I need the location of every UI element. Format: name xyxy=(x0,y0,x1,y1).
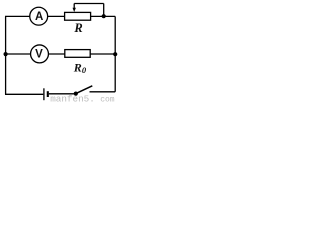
node junction mid-right xyxy=(113,52,117,56)
switch pivot node xyxy=(74,92,78,96)
wire ammeter to rheostat xyxy=(48,15,65,17)
wire R0 to right vertical xyxy=(90,53,115,55)
node junction top xyxy=(102,14,106,18)
svg-text:A: A xyxy=(35,11,43,23)
battery short plate xyxy=(47,91,49,97)
rheostat R body xyxy=(65,12,91,20)
wire battery to switch xyxy=(49,93,76,95)
svg-text:com: com xyxy=(100,95,115,103)
node junction mid-left xyxy=(4,52,8,56)
wire bottom-left horizontal xyxy=(5,93,43,95)
battery long plate xyxy=(43,88,45,100)
ammeter A xyxy=(30,7,48,25)
svg-text:manfen5.: manfen5. xyxy=(50,94,95,104)
wire mid-left horizontal xyxy=(6,53,31,55)
background xyxy=(0,0,119,103)
wire left vertical xyxy=(5,16,7,94)
wire rheostat to right corner xyxy=(91,15,116,17)
wire slider top horizontal xyxy=(74,3,104,5)
wire slider right vertical xyxy=(103,4,105,17)
wire top-left horizontal xyxy=(5,15,30,17)
wire switch right to corner xyxy=(90,91,116,93)
rheostat slider arrow xyxy=(73,4,75,9)
svg-text:V: V xyxy=(35,49,43,61)
svg-text:R: R xyxy=(73,21,82,35)
wire voltmeter to R0 xyxy=(48,53,64,55)
resistor R0 body xyxy=(65,50,90,58)
wire right vertical xyxy=(114,16,116,91)
voltmeter V xyxy=(31,45,49,63)
switch lever xyxy=(76,86,93,94)
